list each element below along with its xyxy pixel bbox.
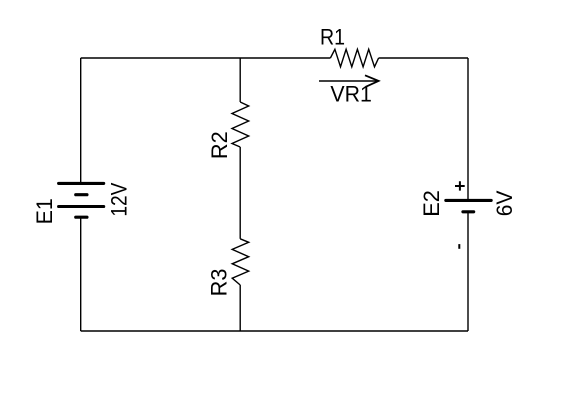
resistor R1 (horizontal zigzag in top wire) [330,49,378,67]
wire: right branch lower segment [467,212,469,331]
current arrow VR1 shaft [319,80,378,82]
svg-text:E1: E1 [32,198,57,224]
svg-text:VR1: VR1 [330,81,371,106]
wire: top-right horizontal segment [379,57,468,59]
wire: left branch upper segment [80,58,82,183]
wire: middle branch middle segment [239,147,241,239]
battery E1 short plate 1 [76,193,87,196]
wire: middle branch upper segment [239,58,241,102]
battery E1 long plate 2 [59,205,104,208]
battery E2 long plate (+) [446,199,491,202]
wire: top-left horizontal segment [81,57,331,59]
battery E2 short plate (-) [463,210,474,213]
svg-text:6V: 6V [492,190,518,216]
svg-text:R3: R3 [206,269,231,297]
svg-text:R1: R1 [320,25,345,49]
current arrow VR1 open head [365,75,379,87]
svg-text:R2: R2 [207,131,232,159]
wire: left branch lower segment [80,217,82,331]
battery E1 long plate 1 [59,182,104,185]
resistor R3 (vertical zigzag) [232,239,249,285]
wire: right branch upper segment [467,58,469,200]
polarity mark - for E2 [458,244,460,249]
wire: middle branch lower segment [239,285,241,331]
polarity mark + for E2 [455,181,465,190]
svg-text:E2: E2 [419,190,444,217]
svg-text:12V: 12V [107,182,132,216]
wire: bottom horizontal [81,330,468,332]
battery E1 short plate 2 [76,216,87,219]
resistor R2 (vertical zigzag) [232,102,249,147]
